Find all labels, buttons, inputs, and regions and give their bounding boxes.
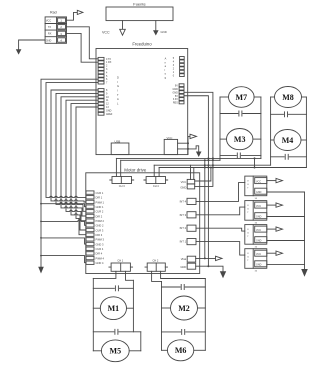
VCC flag arrow (open, right) for Vbat: [216, 256, 223, 260]
ground bus branch to GND4 pin: [41, 256, 86, 263]
stub VCC pin up to bus L3: [190, 165, 192, 179]
wire Fuente GND pin: [155, 21, 157, 31]
svg-text:Rad: Rad: [50, 10, 57, 14]
wire VCC box pin 1: [178, 142, 188, 144]
junction dots on tie: [254, 157, 256, 168]
wire CH3 pin B up to bus L2: [120, 160, 122, 176]
svg-text:GND 3: GND 3: [96, 242, 104, 246]
wire digital pin10 to motor drive (bundle wire 4): [56, 93, 98, 211]
svg-text:Vbat: Vbat: [181, 257, 187, 261]
wire P1 GND to ground rail: [267, 191, 305, 193]
svg-text:GND 1: GND 1: [96, 205, 104, 209]
wire M4 left stub: [271, 139, 274, 141]
motor drive board U3: [86, 168, 200, 274]
VCC flag arrow (open, right): [276, 227, 283, 231]
capacitor C2: [162, 285, 206, 290]
wire M6 right stub: [194, 349, 206, 351]
svg-text:VCC: VCC: [256, 180, 261, 183]
svg-text:DIR 1: DIR 1: [96, 196, 103, 200]
svg-text:CUR 1: CUR 1: [96, 191, 104, 195]
wire Freeduino 5V pin down to battery ground wire: [184, 96, 208, 266]
wire CH1 pin B down to right rail: [126, 271, 134, 280]
wire CH3 pin A up to bus L1: [115, 158, 117, 176]
svg-text:16: 16: [255, 271, 258, 273]
svg-text:o: o: [165, 73, 167, 76]
motor drive INT2 pin: [180, 225, 196, 231]
wire digital pin7 to ground bus (left bundle wire 1): [41, 79, 98, 267]
junction dots on ground bus branches: [40, 203, 42, 257]
label ANALOG (vertical): [165, 58, 167, 80]
wire P2 VCC to flag: [267, 204, 276, 206]
svg-text:U: U: [247, 256, 249, 258]
svg-text:T: T: [247, 236, 249, 238]
stub GND pin up to bus L4: [193, 168, 195, 180]
wire CH4 pin B up to bus L4: [158, 168, 160, 177]
svg-text:M8: M8: [282, 93, 294, 102]
svg-text:O: O: [247, 205, 249, 207]
connector CH2: [145, 258, 168, 271]
wire CH2 pin A down to left rail: [152, 271, 162, 281]
capacitor C4: [271, 154, 307, 159]
svg-text:PWM 2: PWM 2: [96, 219, 105, 223]
svg-text:Fuente: Fuente: [133, 2, 146, 7]
wire M8 left stub: [271, 96, 275, 98]
svg-text:DIR 4: DIR 4: [96, 252, 103, 256]
connector J1 "Rad": [45, 10, 66, 43]
wire lower GND pin to ground: [196, 266, 223, 271]
right rail of M1/M5 loop: [132, 280, 134, 332]
ground arrow (filled): [153, 30, 159, 35]
wire M7 left stub: [220, 96, 229, 98]
svg-text:I: I: [117, 89, 118, 93]
motor drive INT1 pin: [180, 239, 196, 245]
svg-text:T: T: [247, 212, 249, 214]
svg-text:PWM 4: PWM 4: [96, 256, 105, 260]
analog header pins 5-0: [173, 57, 184, 78]
svg-text:g: g: [165, 77, 167, 80]
capacitor C6: [162, 329, 206, 334]
svg-text:T: T: [247, 187, 249, 189]
svg-text:O: O: [247, 180, 249, 182]
power bus L1: [116, 157, 261, 159]
motor M1: [100, 297, 126, 320]
wire P3 GND to ground rail: [267, 240, 305, 242]
svg-text:CUR 3: CUR 3: [96, 228, 104, 232]
wire digital pin11 to motor drive (bundle wire 5): [61, 97, 98, 216]
svg-text:l: l: [165, 69, 166, 72]
VCC flag arrow (open, right): [276, 203, 283, 207]
motor M8: [275, 87, 302, 108]
connector ground rail: [304, 192, 306, 269]
svg-text:RES: RES: [173, 102, 178, 105]
wire CH2 pin B down to right rail: [161, 271, 206, 278]
motor M2: [171, 296, 198, 320]
wire M1 left stub: [93, 307, 100, 309]
svg-text:I: I: [117, 80, 118, 84]
wire digital pin13 to motor drive (bundle wire 7): [71, 104, 98, 230]
capacitor C8: [271, 112, 307, 117]
right rail lower segment M5: [140, 332, 142, 351]
svg-text:U: U: [247, 184, 249, 186]
wire motor drive VCC pin to bus L4: [195, 168, 211, 182]
svg-text:16: 16: [255, 247, 258, 249]
svg-text:M3: M3: [234, 135, 246, 144]
svg-text:GND: GND: [180, 185, 186, 189]
wire digital pin9 to motor drive (bundle wire 3): [51, 90, 98, 202]
motor M7: [229, 87, 255, 108]
connector P4 (OUT/VCC/GND): [245, 249, 267, 273]
label DIGITAL (vertical): [117, 76, 119, 106]
left rail of M2/M6 loop: [161, 281, 163, 350]
wire M2 left stub: [162, 307, 171, 309]
svg-text:VCC: VCC: [256, 205, 261, 208]
wire digital pin12 to motor drive (bundle wire 6): [66, 100, 98, 221]
svg-text:A: A: [117, 97, 119, 101]
connector P1 (OUT/VCC/GND): [245, 176, 267, 200]
svg-text:GND: GND: [161, 30, 167, 34]
ground bus branch to GND2 pin: [41, 220, 86, 226]
svg-text:n: n: [165, 61, 167, 64]
wire M5 right stub: [129, 350, 141, 352]
wire M5 left stub: [93, 350, 101, 352]
digital header pins 8-13 GND AREF: [98, 89, 113, 116]
wire Freeduino GND pin to motor drive GND pin: [184, 92, 213, 186]
motor M5: [101, 340, 129, 362]
wire INT3 to connector P2: [196, 207, 245, 215]
left rail of M1/M5 loop: [92, 278, 94, 350]
wire INT1 to connector P4: [196, 242, 245, 256]
junction dots on power buses: [204, 157, 214, 267]
svg-text:VCC: VCC: [102, 31, 110, 35]
wire INT2 to connector P3: [196, 228, 245, 231]
svg-text:VCC: VCC: [181, 180, 187, 184]
right rail of M2/M6 loop: [204, 279, 206, 351]
wire M2 right stub: [198, 307, 206, 309]
svg-text:M6: M6: [175, 346, 187, 355]
ground bus branch to GND3 pin: [41, 238, 86, 244]
wire CH4 pin A up to bus L3: [153, 165, 155, 176]
VCC flag arrow (open, right): [190, 134, 197, 138]
VCC flag arrow (open, right): [276, 251, 283, 255]
ground arrow (filled): [16, 49, 22, 54]
wire Vbat to flag: [196, 257, 216, 259]
capacitor C1: [93, 286, 133, 291]
svg-text:GND: GND: [256, 216, 262, 219]
svg-text:PWM 1: PWM 1: [96, 200, 105, 204]
capacitor C5: [93, 329, 141, 334]
wire M8 right stub: [302, 96, 307, 98]
motor drive INT3 pin: [180, 212, 196, 218]
VCC flag pole: [188, 136, 190, 154]
motor drive left pin header CUR/DIR/PWM/GND 1-4: [86, 191, 105, 265]
svg-text:U: U: [247, 208, 249, 210]
svg-text:VCC: VCC: [256, 253, 261, 256]
svg-text:GND 2: GND 2: [96, 224, 104, 228]
wire Vbat feed from bus L2: [204, 160, 206, 258]
svg-text:Freeduino: Freeduino: [132, 41, 152, 46]
power bus L4: [159, 167, 306, 169]
junction dots at VCC flag pole: [187, 142, 189, 150]
VCC flag arrow (open, right): [77, 10, 83, 14]
svg-text:INT 4: INT 4: [180, 199, 187, 203]
wire digital pin8 to motor drive (bundle wire 2): [46, 83, 98, 198]
svg-text:CH 3: CH 3: [119, 184, 125, 188]
svg-text:INT 1: INT 1: [180, 240, 187, 244]
svg-text:0: 0: [173, 74, 175, 77]
connector CH1: [109, 258, 133, 271]
svg-text:O: O: [247, 253, 249, 255]
svg-text:GND: GND: [180, 265, 186, 269]
connector CH3: [110, 177, 134, 189]
wire INT4 to connector P1: [196, 183, 245, 202]
power header 9V GND GND 5V 3.3V RES: [172, 84, 184, 105]
wire M1 right stub: [127, 307, 134, 309]
svg-text:M4: M4: [282, 136, 294, 145]
wire Rad RX to Freeduino pin 1: [67, 33, 99, 62]
wire P4 VCC to flag: [267, 252, 276, 254]
wire M3 left stub: [220, 138, 227, 140]
svg-text:CUR 2: CUR 2: [96, 210, 104, 214]
svg-text:INT 3: INT 3: [180, 213, 187, 217]
motor drive INT4 pin: [180, 198, 196, 204]
svg-text:G: G: [117, 84, 119, 88]
ground arrow (filled): [196, 152, 202, 158]
svg-text:GND: GND: [256, 191, 262, 194]
motor drive lower GND pin: [180, 263, 195, 269]
svg-text:U: U: [247, 232, 249, 234]
wire P2 GND to ground rail: [267, 216, 305, 218]
svg-text:RX: RX: [48, 33, 52, 36]
svg-text:M5: M5: [110, 347, 122, 356]
ground bus branch to GND1 pin: [41, 202, 86, 206]
ground arrow (filled) at bottom of bus: [38, 267, 44, 274]
connector P3 (OUT/VCC/GND): [245, 225, 267, 249]
svg-text:VCC: VCC: [256, 229, 261, 232]
svg-text:GND: GND: [256, 264, 262, 267]
svg-text:CH 1: CH 1: [117, 258, 123, 262]
svg-text:INT 2: INT 2: [180, 226, 187, 230]
svg-text:DIR 3: DIR 3: [96, 233, 103, 237]
svg-text:O: O: [247, 229, 249, 231]
wire Rad TX to Freeduino pin 0: [67, 27, 99, 59]
left rail of M8/M4 loop: [270, 97, 272, 165]
wire M3 right stub: [253, 138, 261, 140]
wire M6 left stub: [162, 349, 168, 351]
Freeduino board U1: [96, 41, 188, 154]
wire VCC box pin 2 to ground hook: [178, 146, 199, 152]
svg-text:M7: M7: [236, 93, 248, 102]
svg-text:VCC: VCC: [46, 20, 51, 23]
svg-text:T: T: [117, 93, 119, 97]
left rail of M7/M3 loop: [219, 97, 221, 160]
svg-text:A: A: [165, 58, 167, 61]
power bus L3: [154, 164, 270, 166]
svg-text:7: 7: [106, 82, 108, 85]
svg-text:T: T: [247, 260, 249, 262]
right rail of M8/M4 loop: [305, 97, 307, 168]
wire P3 VCC to flag: [267, 228, 276, 230]
svg-text:a: a: [165, 65, 167, 68]
wire Fuente VCC pin: [122, 21, 124, 30]
motor M6: [167, 340, 193, 361]
capacitor C3: [220, 153, 261, 158]
power bus L2: [121, 159, 220, 161]
VCC arrow symbol (open): [120, 29, 126, 35]
connector CH4: [144, 177, 168, 189]
wire M7 right stub: [254, 96, 261, 98]
svg-text:M1: M1: [108, 304, 120, 313]
svg-text:CH 2: CH 2: [152, 258, 158, 262]
motor M4: [274, 130, 301, 151]
wire M4 right stub: [301, 139, 306, 141]
wire Rad GND: [19, 40, 45, 49]
svg-text:M2: M2: [178, 304, 190, 313]
wire digital pin14 to motor drive (bundle wire 8): [76, 107, 98, 235]
svg-text:CUR 4: CUR 4: [96, 247, 104, 251]
svg-text:L: L: [117, 101, 119, 105]
VCC flag arrow (open, right): [276, 178, 283, 182]
svg-text:16: 16: [255, 198, 258, 200]
svg-text:GND: GND: [256, 240, 262, 243]
svg-text:PWM 3: PWM 3: [96, 238, 105, 242]
svg-text:DIR 2: DIR 2: [96, 214, 103, 218]
connector P2 (OUT/VCC/GND): [245, 201, 267, 225]
capacitor C7: [220, 111, 261, 116]
svg-text:TX: TX: [48, 26, 52, 29]
wire CH1 pin A down to left rail: [93, 271, 116, 278]
VCC box: [164, 136, 177, 155]
right rail of M7/M3 loop: [260, 97, 262, 158]
power source U2 "Fuente": [106, 2, 173, 21]
motor drive VCC pin: [181, 179, 195, 184]
motor drive Vbat pin: [181, 256, 196, 262]
svg-text:CH 4: CH 4: [153, 184, 159, 188]
svg-text:GND 4: GND 4: [96, 261, 104, 265]
wire Rad pin1 to VCC flag: [67, 12, 78, 20]
ground arrow (filled): [301, 269, 308, 277]
wire P4 GND to ground rail: [267, 264, 305, 266]
motor M3: [227, 129, 253, 150]
svg-text:D: D: [117, 76, 119, 80]
digital header pins 0-7: [98, 57, 112, 84]
svg-text:GND: GND: [46, 39, 52, 42]
USB box: [111, 139, 129, 154]
svg-text:Motor drive: Motor drive: [124, 168, 147, 173]
svg-text:AREF: AREF: [106, 113, 113, 116]
motor drive GND pin: [180, 184, 194, 189]
wire bus L1 to L4 tie: [254, 158, 256, 167]
wire P1 VCC to flag: [267, 180, 276, 182]
ground arrow (filled): [220, 271, 226, 278]
